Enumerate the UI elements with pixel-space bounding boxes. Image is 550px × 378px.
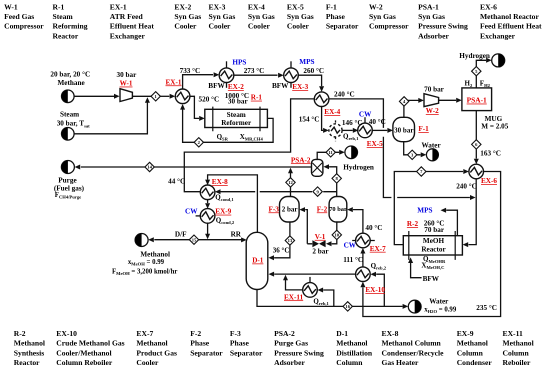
- svg-text:M = 2.05: M = 2.05: [481, 122, 508, 130]
- svg-text:EX-5: EX-5: [367, 140, 383, 148]
- wire: reformer effluent 1000C via node 2 to EX-1 hot side: [183, 109, 274, 142]
- svg-text:F-3: F-3: [230, 329, 241, 338]
- heat exchanger EX-5: [358, 123, 373, 138]
- node 5: [472, 67, 481, 76]
- svg-text:R-1: R-1: [251, 94, 263, 102]
- svg-text:2 bar: 2 bar: [312, 247, 329, 255]
- svg-text:EX-2: EX-2: [228, 83, 244, 91]
- wire: W-1 outlet to node 1: [132, 95, 151, 97]
- wire: EX-9 outlet down to reflux split: [207, 223, 209, 234]
- svg-text:Methanol: Methanol: [503, 339, 534, 348]
- svg-text:14: 14: [147, 165, 152, 170]
- svg-text:Feed Effluent Heat: Feed Effluent Heat: [480, 22, 542, 31]
- svg-text:Column: Column: [503, 348, 530, 357]
- svg-text:EX-8: EX-8: [382, 329, 399, 338]
- svg-text:EX-1: EX-1: [166, 78, 182, 86]
- node 6: [472, 140, 481, 149]
- svg-text:PSA-1: PSA-1: [467, 96, 487, 105]
- node 1: [151, 92, 160, 101]
- node 9: [313, 187, 322, 196]
- svg-text:Cooler: Cooler: [136, 358, 159, 367]
- svg-text:Methanol: Methanol: [14, 339, 45, 348]
- heat exchanger EX-3: [284, 68, 299, 83]
- svg-text:W-1: W-1: [4, 2, 18, 11]
- svg-text:Separator: Separator: [326, 22, 359, 31]
- water product circle bottom: [408, 300, 421, 313]
- svg-text:Product Gas: Product Gas: [136, 348, 177, 357]
- svg-text:BFW: BFW: [423, 275, 440, 283]
- svg-text:Water: Water: [422, 142, 442, 150]
- wire: EX-5 to F-1 40C: [372, 129, 388, 131]
- svg-text:Reactor: Reactor: [14, 358, 40, 367]
- phase separator F-1: [393, 117, 415, 141]
- node 12: [286, 178, 295, 187]
- svg-text:Feed Gas: Feed Gas: [4, 12, 34, 21]
- svg-text:Reactor: Reactor: [53, 31, 79, 40]
- wire: EX-7 outlet up into F-2 40C: [353, 210, 363, 234]
- heat exchanger EX-6: [469, 164, 484, 179]
- compressor W-2: [424, 94, 439, 107]
- svg-text:Cooler: Cooler: [174, 22, 197, 31]
- svg-text:Separator: Separator: [190, 348, 223, 357]
- heat exchanger EX-2: [219, 68, 234, 83]
- svg-text:EX-9: EX-9: [457, 329, 474, 338]
- svg-text:EX-1: EX-1: [110, 2, 127, 11]
- svg-text:Reforming: Reforming: [53, 22, 88, 31]
- wire: D-1 bottoms line via node 16 to water product: [257, 289, 403, 306]
- methanol reactor R-2 box: [403, 236, 462, 255]
- wire: recycle from EX-8 up to EX-4 cold side 44C: [184, 99, 314, 192]
- node 7: [417, 167, 426, 176]
- svg-text:Cooler: Cooler: [287, 22, 310, 31]
- svg-text:MPS: MPS: [299, 58, 314, 66]
- wire: EX-3 to EX-4 260C: [298, 75, 321, 86]
- svg-text:CW: CW: [185, 208, 198, 216]
- wire: EX-11 top tick: [309, 277, 311, 283]
- adsorber PSA-1 box: [462, 88, 492, 111]
- svg-text:Water: Water: [429, 298, 449, 306]
- steam source circle: [62, 128, 75, 141]
- heat exchanger EX-7: [356, 233, 371, 248]
- svg-text:20 bar, 20 °C: 20 bar, 20 °C: [50, 71, 90, 79]
- heat exchanger EX-8: [200, 185, 215, 200]
- svg-text:W-2: W-2: [426, 107, 439, 115]
- wire: bottoms branch up into EX-11: [323, 290, 334, 306]
- svg-text:R-2: R-2: [14, 329, 26, 338]
- svg-text:EX-3: EX-3: [292, 83, 308, 91]
- svg-text:70 bar: 70 bar: [329, 206, 347, 213]
- wire: F-1 bottoms to water via node 3: [404, 142, 421, 155]
- svg-text:EX-6: EX-6: [481, 177, 497, 185]
- svg-text:R-2: R-2: [407, 220, 419, 228]
- wire: EX-7 CW ticks: [352, 240, 375, 242]
- wire: F-2 bottoms via node 10 to V-1: [332, 222, 337, 244]
- svg-text:PSA-2: PSA-2: [291, 156, 311, 164]
- wire: dashed exchanger ticks: [335, 120, 337, 141]
- wire: F-3 overhead via node 12 to purge line: [290, 173, 292, 197]
- svg-text:11: 11: [329, 150, 334, 155]
- svg-text:Phase: Phase: [230, 339, 250, 348]
- methane source circle: [62, 90, 75, 103]
- svg-text:70 bar: 70 bar: [424, 86, 445, 94]
- wire: EX-2 BFW tick: [226, 83, 228, 88]
- svg-text:Column: Column: [457, 348, 484, 357]
- svg-text:Steam: Steam: [60, 110, 79, 118]
- water product circle F-1: [426, 149, 438, 161]
- node 10: [332, 230, 341, 239]
- svg-text:Effluent Heat: Effluent Heat: [110, 22, 155, 31]
- svg-text:240 °C: 240 °C: [334, 91, 355, 99]
- svg-text:EX-11: EX-11: [284, 293, 304, 301]
- svg-text:Syn Gas: Syn Gas: [248, 12, 275, 21]
- wire: EX-1 outlet 733C to EX-2: [183, 75, 213, 90]
- svg-text:30 bar: 30 bar: [228, 98, 249, 106]
- wire: W-2 outlet to PSA-1 70 bar: [439, 99, 457, 101]
- svg-text:R-1: R-1: [53, 2, 65, 11]
- svg-text:EX-10: EX-10: [56, 329, 77, 338]
- steam reformer R-1 box: [205, 109, 268, 127]
- svg-text:MPS: MPS: [417, 207, 432, 215]
- wire: reactor effluent riser to EX-6 via node 7: [394, 172, 463, 245]
- heat exchanger EX-10: [356, 267, 371, 282]
- svg-text:Reactor: Reactor: [421, 246, 446, 254]
- wire: EX-2 HPS tick: [226, 61, 228, 68]
- svg-text:V-1: V-1: [315, 233, 326, 241]
- svg-text:Methanol Reactor: Methanol Reactor: [480, 12, 539, 21]
- purge sink circle: [61, 161, 74, 174]
- wire: distillate D/F line to methanol product via node 15: [154, 239, 241, 241]
- svg-text:D-1: D-1: [252, 257, 264, 265]
- svg-text:Phase: Phase: [326, 12, 346, 21]
- svg-text:Syn Gas: Syn Gas: [369, 12, 396, 21]
- node 14: [145, 162, 154, 171]
- svg-text:Synthesis: Synthesis: [14, 348, 44, 357]
- node 11: [326, 148, 335, 157]
- svg-text:146 °C: 146 °C: [342, 119, 363, 127]
- hydrogen product circle top: [492, 54, 505, 67]
- hydrogen product circle mid: [345, 146, 358, 159]
- svg-text:EX-4: EX-4: [324, 108, 340, 116]
- wire: recycle 240C from EX-4 to reactor feed junction: [329, 99, 470, 198]
- node 3: [408, 150, 417, 159]
- svg-text:70 bar: 70 bar: [424, 226, 445, 234]
- svg-text:F-3: F-3: [269, 205, 280, 213]
- svg-text:111 °C: 111 °C: [343, 256, 363, 264]
- phase separator F-2: [329, 197, 347, 223]
- svg-text:EX-9: EX-9: [215, 208, 231, 216]
- svg-text:273 °C: 273 °C: [244, 67, 265, 75]
- svg-text:30 bar: 30 bar: [394, 126, 413, 134]
- node 13: [285, 236, 294, 245]
- svg-text:Column: Column: [336, 358, 363, 367]
- svg-text:44 °C: 44 °C: [168, 178, 185, 186]
- svg-text:16: 16: [345, 304, 350, 309]
- wire: EX-6 hot outlet 235C down and to EX-10: [363, 172, 501, 317]
- wire: EX-5 CW tick: [364, 117, 366, 124]
- wire: steam feed joining methane line: [74, 102, 147, 134]
- svg-text:36 °C: 36 °C: [273, 246, 290, 254]
- svg-text:PSA-1: PSA-1: [418, 2, 439, 11]
- heat exchanger EX-4: [314, 92, 329, 107]
- wire: reactor MPS steam line: [446, 210, 457, 235]
- svg-text:PSA-2: PSA-2: [274, 329, 295, 338]
- svg-text:EX-7: EX-7: [136, 329, 153, 338]
- svg-text:10: 10: [335, 233, 340, 238]
- wire: reboiler return into D-1: [274, 273, 356, 275]
- svg-text:240 °C: 240 °C: [456, 183, 477, 191]
- compressor W-1: [120, 89, 132, 102]
- svg-text:Adsorber: Adsorber: [418, 31, 449, 40]
- wire: EX-3 BFW tick: [290, 83, 292, 88]
- svg-text:Syn Gas: Syn Gas: [418, 12, 445, 21]
- wire: EX-11 return to reboiler line: [286, 280, 303, 290]
- svg-text:Syn Gas: Syn Gas: [174, 12, 201, 21]
- svg-text:Purge Gas: Purge Gas: [274, 339, 308, 348]
- wire: EX-8 to EX-9: [207, 200, 209, 204]
- dashed linked exchanger Q_reb1: [329, 124, 342, 137]
- wire: PSA-2 hydrogen via node 11: [317, 152, 339, 159]
- svg-text:Syn Gas: Syn Gas: [209, 12, 236, 21]
- svg-text:Separator: Separator: [230, 348, 263, 357]
- svg-text:40 °C: 40 °C: [369, 118, 386, 126]
- svg-text:154 °C: 154 °C: [299, 116, 320, 124]
- wire: EX-6 cold outlet 240C to reactor inlet: [469, 179, 477, 245]
- wire: V-1 outlet up into F-3: [305, 210, 312, 244]
- phase separator F-3: [280, 197, 300, 223]
- svg-text:CW: CW: [344, 242, 357, 250]
- svg-text:733 °C: 733 °C: [180, 67, 201, 75]
- svg-text:Reformer: Reformer: [221, 119, 252, 127]
- svg-text:163 °C: 163 °C: [480, 150, 501, 158]
- svg-text:D-1: D-1: [336, 329, 348, 338]
- svg-text:13: 13: [288, 238, 293, 243]
- svg-text:RR: RR: [231, 231, 242, 239]
- svg-text:Cooler/Methanol: Cooler/Methanol: [56, 348, 111, 357]
- heat exchanger EX-1: [175, 89, 190, 104]
- wire: dashed exchanger to EX-5 146C: [342, 129, 353, 131]
- svg-text:MeOH: MeOH: [423, 237, 445, 245]
- svg-text:Methanol Column: Methanol Column: [382, 339, 442, 348]
- wire: EX-2 to EX-3 273C: [234, 74, 278, 76]
- svg-text:EX-2: EX-2: [174, 2, 191, 11]
- wire: EX-4 to dashed reboiler exchanger 154C: [322, 107, 323, 131]
- node 16: [343, 302, 352, 311]
- svg-text:EX-4: EX-4: [248, 2, 265, 11]
- wire: node 1 to EX-1: [160, 95, 169, 97]
- wire: F-3 bottoms via node 13 into D-1 36C: [274, 222, 290, 258]
- svg-text:12: 12: [288, 180, 293, 185]
- wire: EX-9 CW tick: [196, 215, 201, 217]
- wire: EX-3 MPS tick: [290, 61, 292, 68]
- svg-text:Exchanger: Exchanger: [480, 31, 516, 40]
- svg-text:Pressure Swing: Pressure Swing: [418, 22, 468, 31]
- svg-text:F-2: F-2: [190, 329, 201, 338]
- svg-text:Pressure Swing: Pressure Swing: [274, 348, 324, 357]
- svg-text:Compressor: Compressor: [369, 22, 409, 31]
- svg-text:EX-7: EX-7: [370, 245, 386, 253]
- node 4: [399, 97, 408, 106]
- methanol product circle: [135, 234, 148, 247]
- wire: purge line from PSA-2 to purge via node 14: [81, 166, 312, 168]
- svg-text:ATR Feed: ATR Feed: [110, 12, 144, 21]
- svg-text:Cooler: Cooler: [248, 22, 271, 31]
- svg-text:520 °C: 520 °C: [199, 95, 220, 103]
- svg-text:W-2: W-2: [369, 2, 383, 11]
- adsorber PSA-2 vessel: [312, 159, 323, 176]
- svg-text:F-2: F-2: [317, 205, 328, 213]
- node 2: [194, 138, 203, 147]
- svg-text:Steam: Steam: [53, 12, 74, 21]
- svg-text:Syn Gas: Syn Gas: [287, 12, 314, 21]
- svg-text:Cooler: Cooler: [209, 22, 232, 31]
- wire: EX-10 to EX-7 111C: [362, 253, 364, 267]
- svg-text:Reboiler: Reboiler: [503, 358, 531, 367]
- svg-text:Hydrogen: Hydrogen: [459, 52, 490, 60]
- svg-text:EX-3: EX-3: [209, 2, 226, 11]
- svg-text:235 °C: 235 °C: [476, 304, 497, 312]
- svg-text:EX-8: EX-8: [212, 178, 228, 186]
- distillation column D-1: [246, 232, 268, 289]
- valve V-1: [312, 240, 319, 247]
- svg-text:2 bar: 2 bar: [282, 205, 298, 213]
- wire: F-1 overhead through node 4 to W-2: [404, 100, 419, 117]
- wire: EX-1 to steam reformer 520C: [190, 96, 199, 118]
- wire: D-1 overhead to EX-8: [208, 175, 258, 233]
- svg-text:40 °C: 40 °C: [365, 224, 382, 232]
- svg-text:Condenser/Recycle: Condenser/Recycle: [382, 348, 445, 357]
- svg-text:Methanol: Methanol: [136, 339, 167, 348]
- svg-text:Hydrogen: Hydrogen: [343, 163, 374, 171]
- wire: reactor BFW line: [411, 263, 422, 278]
- svg-text:EX-11: EX-11: [503, 329, 523, 338]
- svg-text:F-1: F-1: [418, 125, 429, 133]
- svg-text:EX-10: EX-10: [365, 286, 385, 294]
- svg-text:Crude Methanol Gas: Crude Methanol Gas: [56, 339, 124, 348]
- wire: methane feed to W-1: [74, 95, 116, 97]
- wire: PSA-1 hydrogen offtake via node 5: [476, 60, 486, 88]
- svg-text:Methane: Methane: [58, 79, 85, 87]
- svg-text:D/F: D/F: [175, 231, 187, 239]
- svg-text:Column Reboiler: Column Reboiler: [56, 358, 113, 367]
- svg-text:260 °C: 260 °C: [303, 67, 324, 75]
- svg-text:Condenser: Condenser: [457, 358, 493, 367]
- svg-text:BFW: BFW: [272, 82, 289, 90]
- svg-text:Gas Heater: Gas Heater: [382, 358, 420, 367]
- svg-text:Methanol: Methanol: [140, 250, 170, 258]
- node 8: [332, 174, 341, 183]
- svg-text:Compressor: Compressor: [4, 22, 44, 31]
- svg-text:W-1: W-1: [120, 80, 133, 88]
- wire: bottoms branch up into EX-10: [376, 274, 384, 306]
- svg-text:BFW: BFW: [208, 82, 225, 90]
- wire: F-2 overhead via node 8 to PSA-2: [329, 167, 337, 197]
- svg-text:30 bar: 30 bar: [117, 71, 138, 79]
- svg-text:15: 15: [192, 237, 197, 242]
- svg-text:Adsorber: Adsorber: [274, 358, 305, 367]
- svg-text:EX-5: EX-5: [287, 2, 304, 11]
- wire: PSA-1 MUG line via node 6 to EX-6 163C: [475, 111, 477, 159]
- svg-text:EX-6: EX-6: [480, 2, 497, 11]
- svg-text:HPS: HPS: [232, 59, 246, 67]
- svg-text:F-1: F-1: [326, 2, 337, 11]
- svg-text:Exchanger: Exchanger: [110, 31, 146, 40]
- svg-text:Purge: Purge: [58, 176, 76, 184]
- svg-text:Distillation: Distillation: [336, 348, 373, 357]
- heat exchanger EX-9: [200, 209, 215, 224]
- node 15: [189, 235, 198, 244]
- svg-text:Methanol: Methanol: [457, 339, 488, 348]
- svg-text:Methanol: Methanol: [336, 339, 367, 348]
- svg-text:Phase: Phase: [190, 339, 210, 348]
- svg-text:Steam: Steam: [227, 111, 246, 119]
- wire: recycle gas from F-2/F-3 into EX-8 via node 9: [221, 191, 337, 193]
- heat exchanger EX-11: [303, 283, 318, 298]
